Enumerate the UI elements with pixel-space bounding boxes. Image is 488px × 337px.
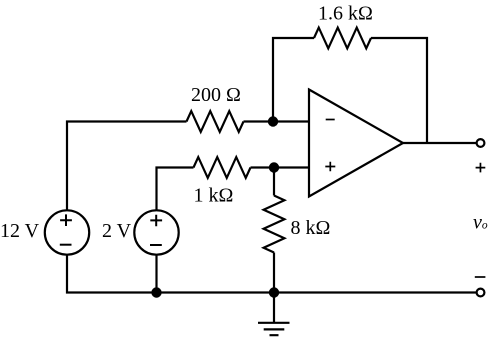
wire: 8 kohm bottom stub <box>273 253 275 293</box>
wire: op-amp output to + terminal <box>403 142 477 144</box>
wire: 2 V source bottom stub <box>155 255 157 293</box>
resistor 1.6 kohm (feedback zigzag) <box>314 28 371 49</box>
output + polarity label <box>476 163 486 173</box>
svg-text:1.6 kΩ: 1.6 kΩ <box>318 3 373 25</box>
wire: 12 V source bottom to ground rail corner <box>67 255 477 293</box>
wire: non-inverting input line left segment with corner down to 2V source top <box>157 168 194 211</box>
voltage source 2 V (circle) <box>134 210 178 254</box>
svg-text:2 V: 2 V <box>102 220 132 242</box>
wire: 8 kohm top stub <box>273 168 275 196</box>
wire: 200 ohm resistor to op-amp inverting input <box>244 120 310 122</box>
12 V source - symbol <box>60 244 72 246</box>
svg-text:1 kΩ: 1 kΩ <box>194 185 234 207</box>
op-amp inverting input minus symbol <box>326 119 335 121</box>
2 V source - symbol <box>150 244 162 246</box>
node: non-inverting input junction (dot) <box>269 162 279 172</box>
resistor 8 kohm (vertical zigzag) <box>264 196 285 253</box>
wire: feedback top-right segment and right vertical down to output <box>371 38 427 143</box>
svg-text:vo: vo <box>473 212 488 234</box>
svg-text:12 V: 12 V <box>0 220 40 242</box>
wire: inverting-input line left segment with corner down to 12V source top <box>67 122 187 211</box>
node: inverting input junction (dot) <box>268 116 278 126</box>
output terminal - (open circle) <box>477 289 485 297</box>
resistor 200 ohm (zigzag) <box>187 111 244 132</box>
wire: 1 kohm resistor to op-amp non-inverting input <box>251 166 310 168</box>
ground symbol (three bars) <box>258 323 290 335</box>
node: 8 kohm / bottom rail / ground junction (dot) <box>269 287 279 297</box>
ground stub wire <box>273 293 275 323</box>
output - polarity label <box>475 276 486 278</box>
12 V source + symbol <box>60 214 72 226</box>
node: 2 V source / bottom rail junction (dot) <box>151 287 161 297</box>
svg-text:200 Ω: 200 Ω <box>191 84 241 106</box>
op-amp U1 (triangle) <box>309 90 403 197</box>
wire: feedback left vertical and top-left segment <box>273 38 314 122</box>
resistor 1 kohm (zigzag) <box>194 157 251 178</box>
op-amp non-inverting input plus symbol <box>325 162 335 171</box>
2 V source + symbol <box>150 215 162 227</box>
output terminal + (open circle) <box>477 139 485 147</box>
voltage source 12 V (circle) <box>45 210 89 254</box>
svg-text:8 kΩ: 8 kΩ <box>291 217 331 239</box>
